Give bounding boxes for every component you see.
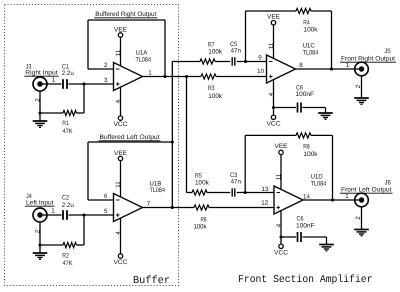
svg-text:2.2u: 2.2u [62, 70, 74, 77]
svg-text:12: 12 [261, 200, 268, 207]
wire U1C output to J5 [296, 68, 362, 70]
section label Front Section Amplifier [238, 274, 373, 286]
svg-text:2: 2 [35, 229, 42, 233]
node right branch [185, 75, 188, 78]
svg-text:1: 1 [148, 70, 152, 77]
node U1C output [330, 67, 333, 70]
svg-text:Right Input: Right Input [25, 70, 58, 77]
svg-text:100k: 100k [208, 93, 223, 100]
svg-text:C2: C2 [62, 195, 69, 202]
VCC terminal U1B [114, 218, 128, 266]
svg-text:VEE: VEE [114, 150, 127, 157]
VEE terminal U1C [267, 13, 280, 59]
svg-text:VCC: VCC [114, 121, 128, 128]
svg-text:100k: 100k [304, 26, 319, 33]
svg-text:100k: 100k [208, 48, 223, 55]
svg-text:R8: R8 [303, 144, 310, 151]
ground at J6 [354, 230, 369, 236]
svg-text:VCC: VCC [267, 120, 281, 127]
op-amp U1A TL084 [104, 49, 152, 103]
svg-text:J6: J6 [385, 179, 392, 186]
svg-text:100k: 100k [195, 179, 210, 186]
resistor R7 100k [200, 41, 223, 64]
svg-text:VCC: VCC [274, 249, 288, 256]
ground at J4 [33, 253, 48, 259]
wire R2 to C2-output node [77, 244, 85, 246]
op-amp U1B TL084 [104, 180, 165, 234]
wire C3 to U1D pin13 [236, 192, 274, 194]
svg-text:VEE: VEE [267, 13, 280, 20]
svg-text:8: 8 [299, 62, 303, 69]
Buffer section dashed border [5, 5, 179, 286]
section label Buffer [133, 275, 170, 287]
wire R1 node up to C1 output [83, 84, 85, 113]
svg-text:47n: 47n [231, 179, 242, 186]
wire R3 to U1C pin10 [216, 76, 267, 78]
ground at C6 lower [319, 245, 334, 251]
wire cross vertical left (buffered left to R7 and U1B output) [171, 62, 173, 208]
VEE terminal U1B [114, 150, 127, 197]
svg-text:R6: R6 [201, 216, 207, 223]
svg-text:1: 1 [52, 77, 56, 84]
svg-text:47K: 47K [63, 260, 74, 267]
wire U1A pin2 row [88, 68, 114, 70]
wire J3 to C1 [40, 83, 62, 85]
node R8 to pin13 [244, 191, 247, 194]
svg-text:100k: 100k [194, 224, 208, 231]
svg-text:J5: J5 [384, 48, 391, 55]
wire U1B feedback left vertical [87, 142, 89, 200]
node C2 output [82, 213, 85, 216]
svg-text:100nF: 100nF [296, 223, 315, 230]
resistor R4 100k [296, 8, 318, 33]
svg-text:R7: R7 [208, 41, 215, 48]
svg-text:1: 1 [345, 193, 349, 200]
svg-text:2.2u: 2.2u [62, 202, 74, 209]
wire U1A output branch vertical to R5 [186, 77, 188, 193]
capacitor C5 47n [230, 41, 241, 65]
svg-text:7: 7 [147, 201, 151, 208]
wire R6 to U1D pin12 [209, 207, 274, 209]
capacitor C1 2.2u [62, 63, 74, 89]
svg-text:Buffered Left Output: Buffered Left Output [100, 134, 160, 141]
svg-text:Front Section Amplifier: Front Section Amplifier [238, 274, 373, 286]
node buffered left tee [171, 140, 174, 143]
svg-text:R3: R3 [208, 85, 215, 92]
wire U1B pin6 row [88, 199, 114, 201]
svg-text:1: 1 [346, 62, 350, 69]
svg-text:5: 5 [104, 208, 108, 215]
svg-text:VEE: VEE [275, 143, 288, 150]
VCC terminal U1D [274, 211, 288, 257]
connector J4 [25, 193, 55, 233]
resistor R8 100k [296, 133, 318, 158]
wire C6 to ground (lower) [303, 237, 327, 245]
capacitor C6 100nF (lower) [296, 216, 315, 243]
wire R2 node up to C2 output [83, 215, 85, 245]
VEE terminal U1A [114, 27, 127, 66]
wire U1A feedback left vertical [87, 20, 89, 69]
wire ground to R2 [40, 244, 63, 246]
node U1B output tee [171, 206, 174, 209]
wire U1A output row to amplifier section [143, 76, 202, 78]
svg-text:47n: 47n [231, 48, 242, 55]
connector J6 [340, 179, 393, 219]
svg-text:2: 2 [35, 98, 42, 102]
resistor R3 100k [201, 74, 223, 100]
svg-text:Buffer: Buffer [133, 275, 170, 287]
node VCC C6 lower [279, 235, 282, 238]
svg-text:14: 14 [303, 194, 310, 201]
svg-text:R2: R2 [62, 253, 69, 260]
wire C1 to U1A pin3 [69, 83, 114, 85]
svg-text:100nF: 100nF [296, 91, 315, 98]
VCC terminal U1A [114, 87, 128, 128]
svg-text:13: 13 [262, 186, 269, 193]
svg-text:TL084: TL084 [303, 50, 319, 57]
wire U1A feedback right vertical [164, 20, 166, 77]
VEE terminal U1D [275, 143, 288, 190]
svg-text:2: 2 [104, 62, 108, 69]
wire R8 feedback top right [311, 134, 333, 136]
capacitor C6 100nF (upper) [296, 85, 315, 113]
connector J3 [24, 63, 58, 101]
op-amp U1D TL084 [261, 173, 326, 227]
wire U1A feedback top (Buffered Right Output) [88, 19, 165, 21]
wire VCC to C6 (lower decoupling) [281, 236, 296, 238]
wire U1B feedback top (Buffered Left Output) [88, 141, 172, 143]
wire U1D output to J6 [303, 199, 362, 201]
ground at J5 [354, 98, 369, 104]
svg-text:6: 6 [104, 193, 108, 200]
svg-text:TL084: TL084 [136, 56, 152, 63]
wire R8 feedback top left [245, 134, 296, 136]
wire C2 to U1B pin5 [69, 214, 114, 216]
wire R1 to C1-output node [77, 112, 85, 114]
svg-text:Buffered Right Output: Buffered Right Output [95, 11, 156, 18]
op-amp U1C TL084 [257, 42, 318, 96]
node R4 to pin9 [244, 60, 247, 63]
resistor R1 47K [62, 110, 76, 134]
node U1D output [331, 198, 334, 201]
svg-text:VCC: VCC [114, 259, 128, 266]
ground at J3 [33, 121, 48, 127]
ground at C6 upper [318, 113, 333, 119]
node C1 output [82, 82, 85, 85]
wire R7 to C5 [215, 61, 231, 63]
node J4 ground [38, 243, 41, 246]
wire J5 pin2 vertical to ground [361, 76, 363, 98]
wire R8 feedback right vertical [332, 135, 334, 200]
wire C6 to ground (upper) [303, 108, 326, 114]
svg-text:TL084: TL084 [150, 187, 166, 194]
wire R4 feedback top right [311, 10, 332, 12]
wire R4 feedback left vertical [245, 11, 247, 62]
VCC terminal U1C [267, 80, 281, 128]
wire C5 to U1C pin9 [236, 61, 266, 63]
wire VCC to C6 (upper decoupling) [274, 107, 297, 109]
node J3 ground [38, 111, 41, 114]
wire R5 to C3 [207, 192, 231, 194]
svg-text:10: 10 [257, 68, 264, 75]
capacitor C2 2.2u [62, 195, 74, 220]
svg-text:C6: C6 [297, 216, 304, 223]
svg-text:TL084: TL084 [311, 181, 327, 188]
wire J3 pin2 vertical to ground [39, 91, 41, 121]
svg-text:3: 3 [104, 77, 108, 84]
wire J4 pin2 vertical to ground [39, 222, 41, 253]
wire U1B output row [143, 207, 195, 209]
resistor R6 100k [194, 205, 210, 231]
wire J6 pin2 vertical to ground [361, 207, 363, 230]
net label Buffered Right Output [94, 11, 157, 18]
node VCC C6 upper [272, 106, 275, 109]
resistor R5 100k [192, 172, 210, 195]
node U1A feedback [163, 75, 166, 78]
wire R8 feedback left vertical [244, 135, 246, 192]
wire R4 feedback right vertical [331, 11, 333, 69]
resistor R2 47K [62, 242, 76, 267]
capacitor C3 47n [230, 172, 241, 197]
svg-text:100k: 100k [304, 151, 319, 158]
svg-text:VEE: VEE [114, 27, 127, 34]
svg-text:Left Input: Left Input [26, 200, 54, 207]
wire R4 feedback top left [246, 10, 297, 12]
connector J5 [340, 48, 396, 88]
svg-text:1: 1 [51, 208, 55, 215]
wire R7 row from cross vertical [172, 61, 200, 63]
svg-text:R1: R1 [62, 120, 69, 127]
wire J4 to C2 [40, 214, 62, 216]
wire branch to R5 row [187, 192, 193, 194]
svg-text:47K: 47K [63, 128, 74, 135]
wire ground to R1 [40, 112, 63, 114]
svg-text:9: 9 [258, 55, 262, 62]
net label Buffered Left Output [99, 134, 161, 141]
